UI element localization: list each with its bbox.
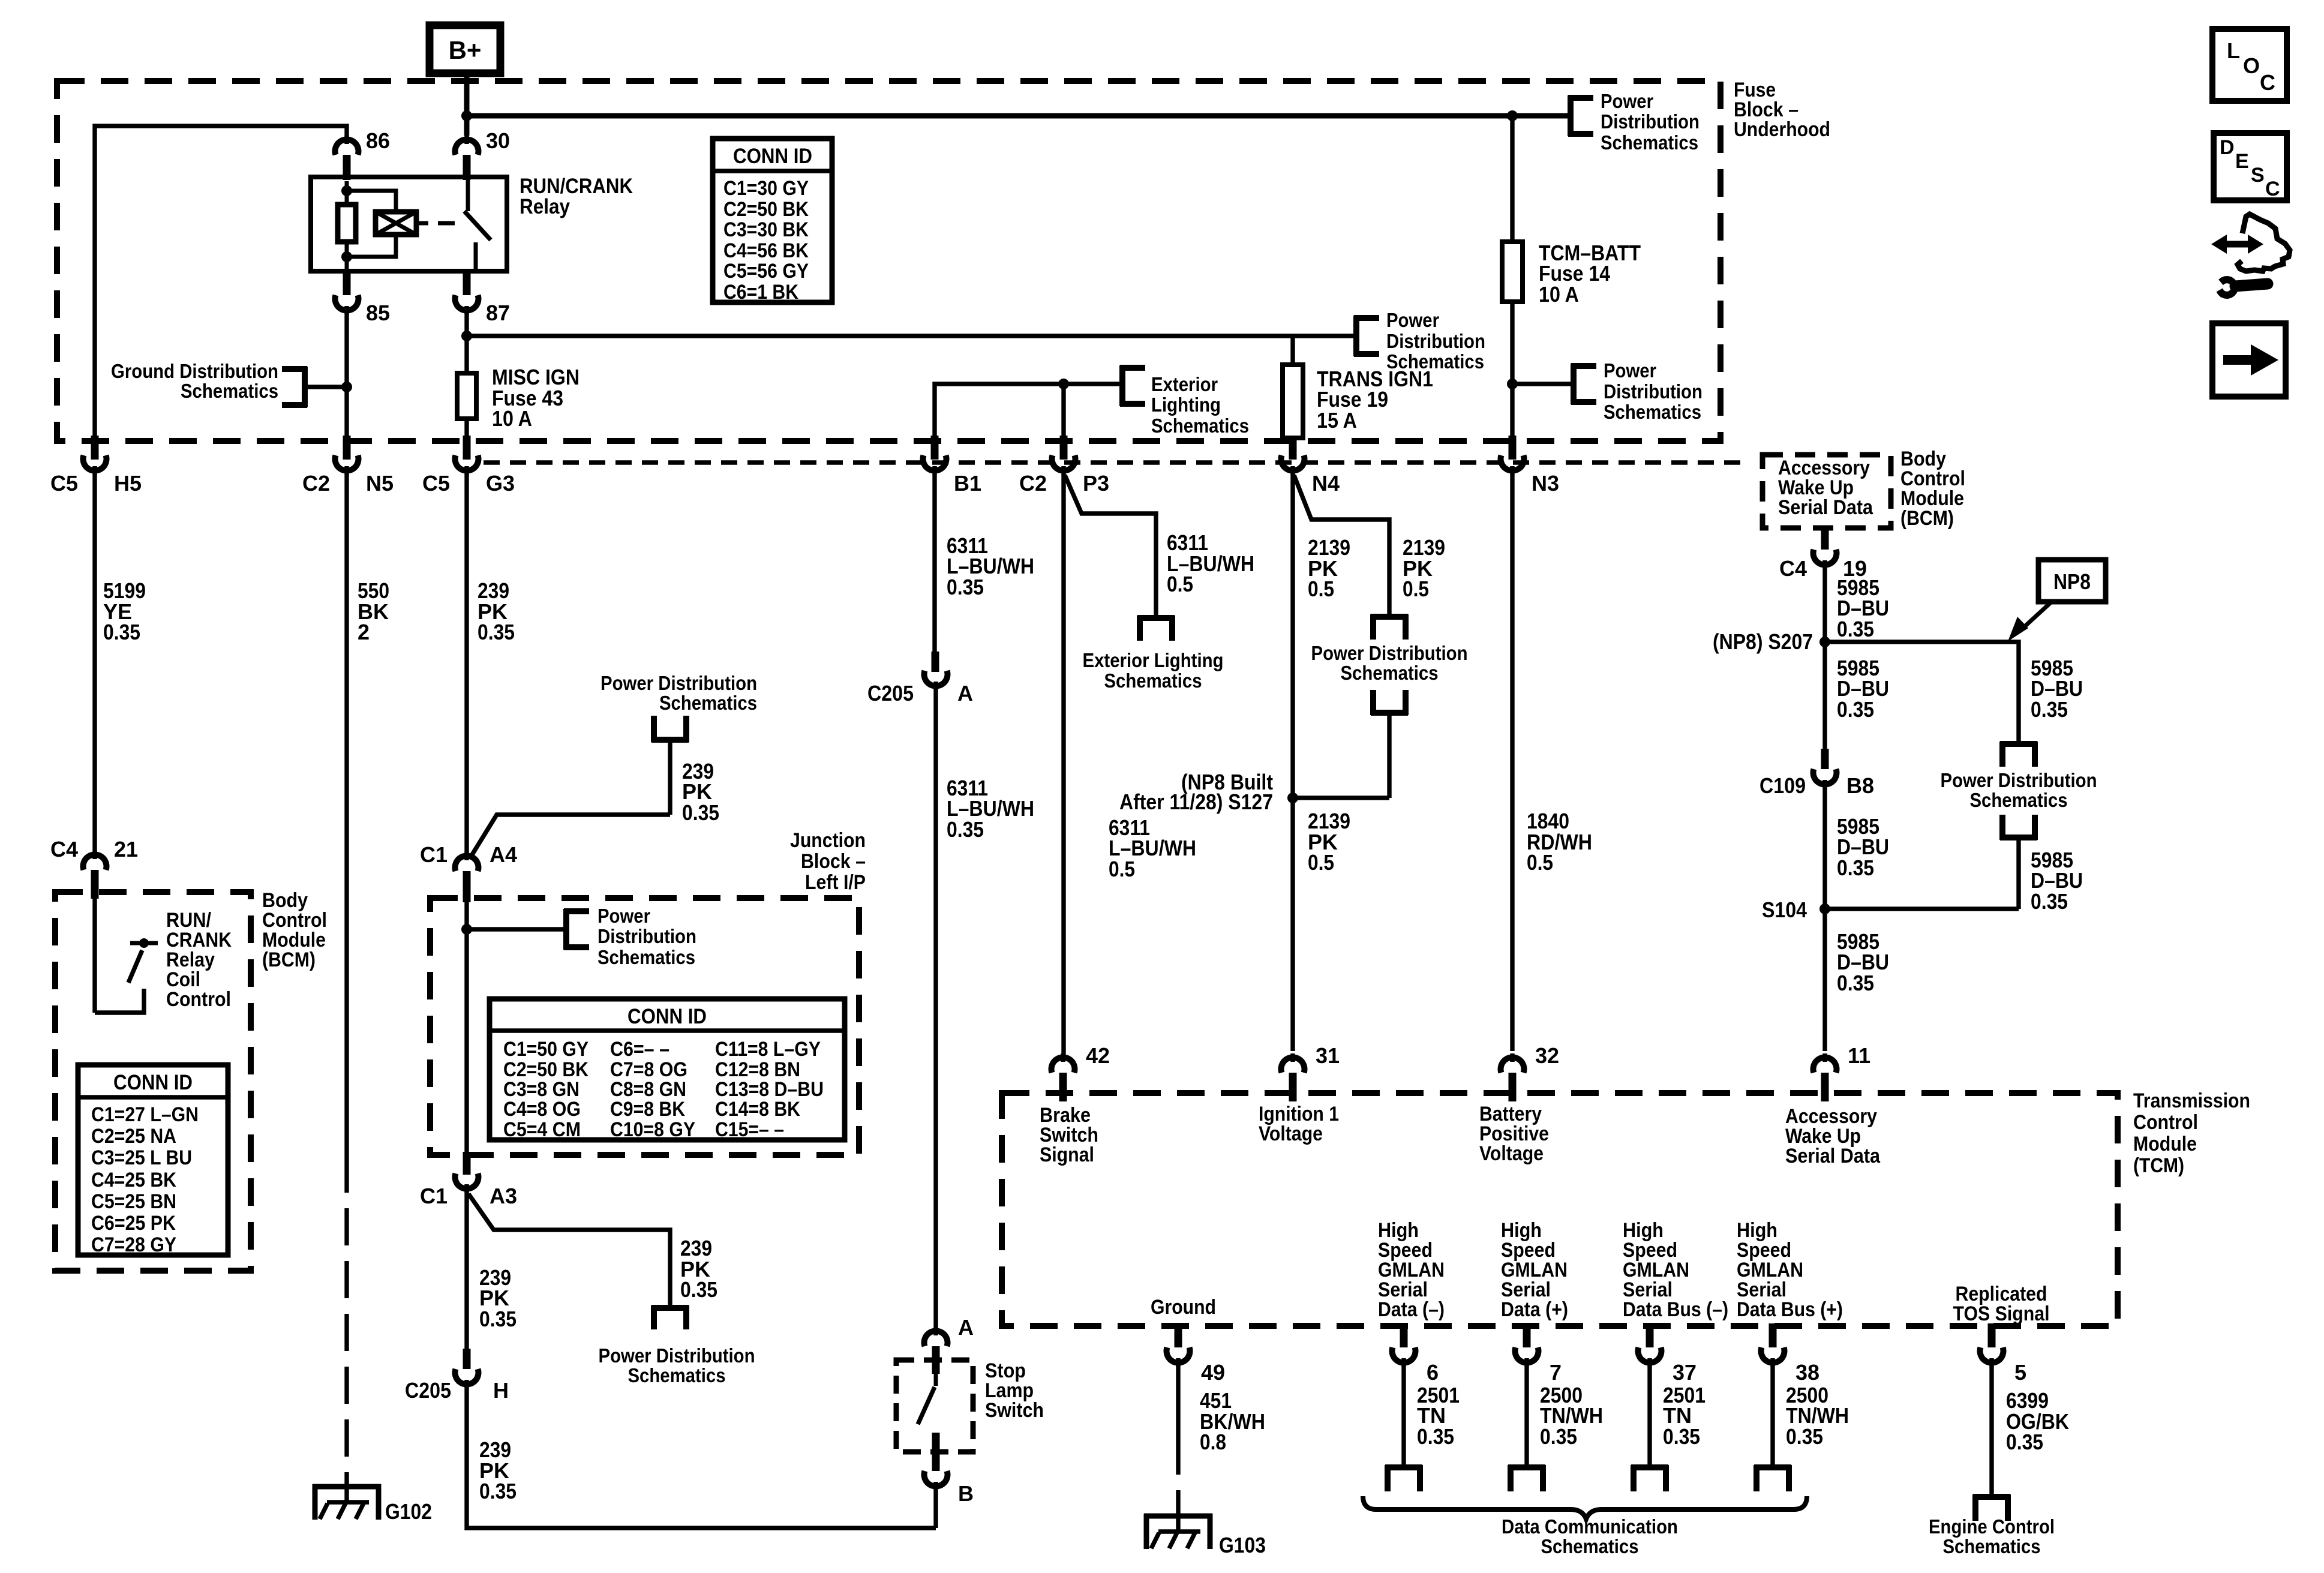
svg-text:C4=25 BK: C4=25 BK: [91, 1169, 176, 1191]
BCM internal run/crank relay coil control driver (switch symbol): [95, 897, 232, 1013]
label: Accessory Wake Up Serial Data (TCM pin 11): [1785, 1105, 1881, 1167]
svg-text:Power: Power: [1601, 90, 1653, 112]
connector pin 30 of RUN/CRANK relay: [455, 128, 511, 180]
svg-text:C2=50 BK: C2=50 BK: [723, 198, 809, 221]
svg-text:C10=8 GY: C10=8 GY: [610, 1118, 695, 1141]
svg-text:Power Distribution: Power Distribution: [1941, 769, 2097, 791]
connector B of stop lamp switch: [924, 1471, 974, 1528]
wire 5985 D-BU 0.35 (S207 to C109 B8): [1825, 642, 1889, 751]
connector TCM pin 6 (GMLAN serial data -): [1392, 1323, 1439, 1385]
svg-text:A4: A4: [490, 842, 517, 867]
svg-text:C1=50 GY: C1=50 GY: [503, 1038, 588, 1061]
svg-text:0.35: 0.35: [1837, 855, 1874, 880]
svg-text:C2: C2: [1019, 471, 1047, 496]
wire 451 BK/WH 0.8 (TCM pin 49 to G103), solid then dashed: [1178, 1365, 1265, 1516]
svg-text:Distribution: Distribution: [597, 925, 696, 947]
svg-text:Voltage: Voltage: [1259, 1122, 1323, 1145]
svg-text:CONN ID: CONN ID: [113, 1071, 193, 1094]
svg-text:O: O: [2243, 53, 2260, 78]
svg-text:21: 21: [114, 837, 138, 861]
label: Ground (TCM pin 49): [1151, 1296, 1216, 1319]
connector C205 pin H: [405, 1349, 509, 1403]
svg-text:Engine Control: Engine Control: [1929, 1515, 2055, 1538]
svg-text:0.35: 0.35: [479, 1307, 517, 1331]
wire 1840 RD/WH 0.5 (N3 to TCM pin 32): [1512, 474, 1592, 1051]
wire junction block tap to power distribution reference: [467, 927, 565, 931]
wire 5985 D-BU 0.35 branch from S207 to power distribution reference: [1825, 642, 2083, 744]
svg-text:A: A: [957, 681, 973, 706]
svg-text:0.35: 0.35: [103, 620, 140, 644]
svg-text:Serial Data: Serial Data: [1778, 496, 1873, 519]
svg-text:B: B: [958, 1481, 974, 1506]
svg-text:CONN ID: CONN ID: [627, 1005, 707, 1028]
svg-text:Signal: Signal: [1040, 1143, 1094, 1166]
svg-text:Schematics: Schematics: [1604, 401, 1701, 423]
svg-text:32: 32: [1535, 1043, 1559, 1068]
svg-text:Power Distribution: Power Distribution: [600, 672, 757, 694]
brace: data communication group: [1363, 1496, 1807, 1557]
svg-text:D: D: [2220, 136, 2235, 159]
svg-text:C4: C4: [50, 837, 78, 861]
svg-text:0.35: 0.35: [1786, 1424, 1823, 1449]
svg-text:0.5: 0.5: [1167, 572, 1193, 596]
label: High Speed GMLAN Serial Data Bus (+) (TCM pin 38): [1737, 1219, 1843, 1321]
svg-text:C5=56 GY: C5=56 GY: [723, 260, 809, 283]
svg-text:Left I/P: Left I/P: [805, 871, 866, 894]
label: High Speed GMLAN Serial Data (-) (TCM pin 6): [1378, 1219, 1445, 1321]
reference bracket: Power Distribution Schematics (inside junction block): [564, 905, 696, 968]
reference bracket: Power Distribution Schematics (middle, TRANS IGN1 bus): [1354, 309, 1485, 373]
wire relay coil feed (pin 86 to BCM H5 column): [95, 126, 347, 436]
wire 5985 D-BU 0.35 (C109 B8 to S104): [1825, 787, 1889, 909]
svg-text:C6=– –: C6=– –: [610, 1038, 669, 1061]
node S207 splice: [1713, 629, 1830, 654]
svg-text:0.35: 0.35: [2031, 697, 2068, 722]
svg-text:0.35: 0.35: [1540, 1424, 1577, 1449]
svg-text:L: L: [2227, 38, 2240, 63]
svg-text:C5=4 CM: C5=4 CM: [503, 1118, 581, 1141]
connector C5/G3 (fuse block, 239 PK circuit): [422, 436, 515, 496]
svg-text:86: 86: [366, 128, 390, 153]
svg-text:Data Communication: Data Communication: [1502, 1515, 1678, 1538]
connector B1 (fuse block, brake switch feed): [923, 436, 982, 496]
svg-text:Data (–): Data (–): [1378, 1298, 1445, 1321]
wire 550 BK 2 (N5 to ground G102), solid portion: [347, 474, 389, 1155]
svg-text:P3: P3: [1083, 471, 1109, 496]
connector TCM pin 31 (ignition 1 voltage): [1281, 1043, 1340, 1101]
svg-text:Lighting: Lighting: [1151, 394, 1221, 416]
svg-text:Schematics: Schematics: [1601, 131, 1698, 154]
svg-text:H: H: [493, 1378, 509, 1403]
svg-text:10 A: 10 A: [1539, 282, 1579, 307]
svg-text:Underhood: Underhood: [1734, 118, 1830, 141]
label: Battery Positive Voltage (TCM pin 32): [1479, 1103, 1549, 1165]
svg-text:C109: C109: [1759, 773, 1806, 798]
svg-text:0.35: 0.35: [1837, 617, 1874, 641]
svg-text:49: 49: [1201, 1360, 1225, 1385]
wire 5985 D-BU 0.35 (C4-19 to S207): [1825, 568, 1889, 642]
svg-text:C4=8 OG: C4=8 OG: [503, 1098, 581, 1121]
svg-text:Power: Power: [1604, 359, 1656, 382]
svg-text:0.5: 0.5: [1527, 850, 1553, 875]
power symbol B+ (battery positive) box: [430, 25, 500, 73]
svg-text:85: 85: [366, 301, 390, 325]
dashed box: Transmission Control Module (TCM): [1002, 1089, 2250, 1326]
svg-text:Data (+): Data (+): [1501, 1298, 1568, 1321]
wire P3 drop from exterior lighting feed: [1061, 384, 1065, 436]
relay coil resistor (internal): [338, 181, 356, 269]
svg-text:C2=25 NA: C2=25 NA: [91, 1125, 176, 1148]
connector TCM pin 11 (accessory wake up serial data): [1813, 1043, 1871, 1101]
dashed box: Accessory Wake Up Serial Data (BCM output): [1762, 455, 1891, 528]
svg-text:(BCM): (BCM): [1900, 507, 1954, 530]
wire B+ feed down to relay pin 30: [464, 73, 470, 136]
svg-text:G3: G3: [486, 471, 515, 496]
table CONN ID (junction block connector IDs): [490, 999, 845, 1141]
label: Ignition 1 Voltage (TCM pin 31): [1259, 1103, 1339, 1145]
svg-text:C1=27 L–GN: C1=27 L–GN: [91, 1103, 199, 1126]
node: junction A4 power distribution tap: [461, 924, 472, 935]
svg-text:87: 87: [486, 301, 510, 325]
connector pin 85 of RUN/CRANK relay: [335, 271, 391, 325]
stop lamp switch contacts and blade: [918, 1362, 940, 1471]
svg-text:C5: C5: [422, 471, 450, 496]
fuse F43 MISC IGN 10A: [457, 365, 580, 436]
label: High Speed GMLAN Serial Data Bus (-) (TCM pin 37): [1623, 1219, 1728, 1321]
svg-text:15 A: 15 A: [1317, 408, 1357, 433]
reference bracket: Power Distribution Schematics (below A3 branch): [599, 1305, 755, 1386]
connector N3 (fuse block, battery feed): [1501, 436, 1560, 496]
svg-text:0.35: 0.35: [2006, 1430, 2043, 1454]
wire 6311 L-BU/WH 0.35 (B1 to C205 A): [935, 474, 1034, 654]
svg-text:Distribution: Distribution: [1386, 330, 1485, 352]
svg-text:Schematics: Schematics: [181, 380, 278, 402]
wire 5985 D-BU 0.35 (S104 to TCM pin 11): [1825, 909, 1889, 1051]
svg-text:2: 2: [358, 620, 370, 644]
svg-text:After 11/28) S127: After 11/28) S127: [1119, 789, 1273, 814]
connector TCM pin 37 (GMLAN serial data bus -): [1638, 1323, 1697, 1385]
svg-text:Exterior Lighting: Exterior Lighting: [1083, 649, 1224, 671]
svg-text:0.5: 0.5: [1308, 577, 1334, 601]
wire 2501 TN 0.35 (TCM pin 37 to data communication): [1631, 1365, 1706, 1491]
svg-text:(NP8) S207: (NP8) S207: [1713, 629, 1813, 654]
svg-text:C14=8 BK: C14=8 BK: [715, 1098, 800, 1121]
wire junction block A4 bus: [464, 902, 469, 1158]
relay coil winding symbol (box with X): [347, 191, 416, 257]
wire 239 PK 0.35 (A3 to C205 H): [467, 1191, 517, 1349]
svg-text:Ground Distribution: Ground Distribution: [111, 360, 278, 382]
svg-text:0.35: 0.35: [1417, 1424, 1454, 1449]
icon: arrow box (next page): [2212, 323, 2286, 397]
svg-text:C205: C205: [867, 681, 914, 706]
node S127 splice: [1119, 770, 1298, 814]
fuse F19 TRANS IGN1 15A: [1283, 336, 1433, 442]
svg-text:(BCM): (BCM): [262, 948, 316, 971]
connector C4 pin 21 (BCM run/crank relay coil control): [50, 837, 138, 899]
svg-text:C9=8 BK: C9=8 BK: [610, 1098, 685, 1121]
svg-text:C6=25 PK: C6=25 PK: [91, 1212, 176, 1235]
reference pass-through: Power Distribution Schematics (N4 branch): [1293, 614, 1468, 798]
connector TCM pin 32 (battery positive voltage): [1501, 1043, 1560, 1101]
svg-text:Block –: Block –: [801, 850, 866, 873]
dashed box: Junction Block - Left I/P: [430, 829, 866, 1155]
connector TCM pin 42 (brake switch signal): [1052, 1043, 1110, 1101]
ground G102: [313, 1484, 432, 1524]
reference bracket: Exterior Lighting Schematics (top): [1120, 365, 1249, 437]
connector C109 pin B8: [1759, 749, 1874, 798]
connector C5/H5 (fuse block to BCM): [50, 436, 142, 496]
callout NP8 with arrow: [2008, 560, 2106, 641]
svg-text:(TCM): (TCM): [2133, 1154, 2184, 1177]
svg-text:30: 30: [486, 128, 510, 153]
node S104 splice: [1762, 897, 1830, 922]
svg-text:E: E: [2235, 150, 2249, 173]
svg-text:C2: C2: [302, 471, 330, 496]
wire 5199 YE 0.35 (H5 to BCM pin 21): [95, 474, 146, 852]
label: High Speed GMLAN Serial Data (+) (TCM pin 7): [1501, 1219, 1568, 1321]
connector C1 pin A4 (junction block): [420, 842, 517, 902]
svg-text:0.35: 0.35: [2031, 889, 2068, 914]
relay switch contact (pins 30-87): [464, 177, 491, 271]
svg-text:Control: Control: [166, 988, 231, 1011]
wire 2500 TN/WH 0.35 (TCM pin 7 to data communication): [1508, 1365, 1603, 1491]
wire exterior lighting feed (fuse 43 to B1/P3): [935, 384, 1121, 436]
svg-text:Relay: Relay: [520, 195, 570, 218]
svg-text:Voltage: Voltage: [1479, 1142, 1544, 1165]
reference bracket: Power Distribution Schematics (top right): [1568, 90, 1700, 154]
icon: DESC box: [2214, 133, 2287, 200]
ground G103: [1144, 1514, 1266, 1557]
svg-text:N5: N5: [366, 471, 394, 496]
wire 2500 TN/WH 0.35 (TCM pin 38 to data communication): [1754, 1365, 1849, 1491]
reference pass-through: Power Distribution Schematics (S207/S104 branch): [1825, 742, 2097, 914]
svg-text:A3: A3: [490, 1184, 517, 1208]
svg-text:Serial Data: Serial Data: [1785, 1145, 1881, 1167]
wire 550 BK 2 dashed portion to G102: [344, 1155, 349, 1487]
svg-text:0.5: 0.5: [1109, 857, 1135, 881]
connector C4 pin 19 (BCM accessory wake up): [1779, 527, 1867, 581]
connector A of stop lamp switch: [924, 1315, 974, 1374]
svg-text:B1: B1: [954, 471, 981, 496]
svg-text:Power Distribution: Power Distribution: [1311, 642, 1468, 664]
wire 6311 L-BU/WH 0.5 branch to exterior lighting reference: [1065, 475, 1254, 618]
svg-text:0.35: 0.35: [947, 817, 984, 842]
connector TCM pin 38 (GMLAN serial data bus +): [1761, 1323, 1820, 1385]
node: junction exterior lighting feed at P3: [1058, 379, 1069, 389]
svg-text:0.5: 0.5: [1308, 850, 1334, 875]
connector N4 (fuse block, ignition 1 feed): [1281, 436, 1340, 496]
table CONN ID (fuse block underhood connector IDs): [713, 139, 832, 304]
svg-text:Module: Module: [2133, 1133, 2197, 1155]
wire 239 PK 0.35 branch from A3 to power distribution reference: [469, 1194, 717, 1308]
svg-text:Distribution: Distribution: [1604, 380, 1703, 403]
svg-text:G103: G103: [1219, 1533, 1266, 1557]
svg-text:Schematics: Schematics: [1104, 670, 1202, 692]
svg-text:42: 42: [1086, 1043, 1110, 1068]
svg-text:B8: B8: [1846, 773, 1874, 798]
connector pin 87 of RUN/CRANK relay: [455, 271, 511, 325]
dashed box: Body Control Module (BCM): [55, 889, 327, 1271]
svg-text:C: C: [2260, 70, 2275, 95]
svg-text:N4: N4: [1312, 471, 1340, 496]
node: junction on B+ bus at TCM-BATT fuse: [1507, 110, 1518, 121]
svg-text:Schematics: Schematics: [659, 692, 757, 714]
wire 239 PK 0.35 (G3 down to junction block A4): [467, 474, 515, 853]
svg-text:C: C: [2265, 178, 2280, 200]
svg-text:C4: C4: [1779, 556, 1807, 581]
svg-text:Power: Power: [1386, 309, 1439, 331]
svg-text:C3=30 BK: C3=30 BK: [723, 218, 809, 241]
label: Brake Switch Signal (TCM pin 42): [1040, 1104, 1098, 1166]
svg-text:H5: H5: [114, 471, 142, 496]
node: junction ground-distribution tap on pin-85 wire: [341, 382, 352, 392]
svg-text:Schematics: Schematics: [1151, 415, 1249, 437]
svg-text:0.35: 0.35: [947, 575, 984, 599]
svg-text:C3=25 L BU: C3=25 L BU: [91, 1146, 192, 1169]
wire 6311 L-BU/WH 0.35 (C205 A to stop lamp switch A): [936, 689, 1034, 1328]
svg-text:Control: Control: [2133, 1111, 2198, 1134]
svg-text:C1: C1: [420, 842, 448, 867]
svg-text:Data Bus (–): Data Bus (–): [1623, 1298, 1728, 1321]
reference bracket: Ground Distribution Schematics: [111, 360, 347, 407]
dashed box: Stop Lamp Switch: [896, 1359, 1044, 1452]
svg-text:TOS Signal: TOS Signal: [1953, 1302, 2050, 1325]
svg-text:C15=– –: C15=– –: [715, 1118, 784, 1141]
svg-text:C7=28 GY: C7=28 GY: [91, 1233, 176, 1256]
svg-text:Transmission: Transmission: [2133, 1089, 2250, 1112]
svg-text:C1: C1: [420, 1184, 448, 1208]
inline connector face line (dashed) under fuse block: [484, 460, 1743, 464]
svg-text:C11=8 L–GY: C11=8 L–GY: [715, 1038, 821, 1061]
svg-text:CONN ID: CONN ID: [733, 145, 812, 168]
wire relay pin 87 to MISC IGN fuse and TRANS IGN1 feed: [467, 313, 1355, 376]
relay RUN/CRANK Relay box: [311, 175, 633, 271]
table CONN ID (BCM connector IDs): [78, 1065, 228, 1256]
svg-text:Power: Power: [597, 905, 650, 927]
svg-text:C5=25 BN: C5=25 BN: [91, 1190, 176, 1213]
node: junction TCM-BATT branch to power distribution: [1507, 379, 1518, 389]
wire 239 PK 0.35 (C205 H to stop lamp switch B): [467, 1387, 936, 1528]
label: Replicated TOS Signal (TCM pin 5): [1953, 1283, 2050, 1325]
svg-text:0.35: 0.35: [1837, 971, 1874, 995]
wire B+ bus to TCM-BATT fuse and power distribution reference: [467, 113, 1569, 119]
svg-text:Power Distribution: Power Distribution: [599, 1344, 755, 1367]
wire 2139 PK 0.5 (S127 to TCM pin 31): [1308, 809, 1350, 875]
svg-text:Schematics: Schematics: [1970, 789, 2068, 811]
svg-text:G102: G102: [385, 1499, 432, 1524]
svg-text:31: 31: [1316, 1043, 1340, 1068]
svg-text:10 A: 10 A: [492, 406, 532, 431]
svg-text:5: 5: [2014, 1360, 2026, 1385]
svg-text:0.35: 0.35: [1663, 1424, 1700, 1449]
wire TCM-BATT branch to power distribution reference: [1512, 382, 1572, 386]
svg-text:0.8: 0.8: [1200, 1430, 1226, 1454]
svg-text:B+: B+: [449, 36, 482, 64]
svg-text:N3: N3: [1532, 471, 1559, 496]
svg-text:S104: S104: [1762, 897, 1807, 922]
dashed box: Fuse Block - Underhood: [57, 79, 1830, 441]
svg-text:Data Bus (+): Data Bus (+): [1737, 1298, 1843, 1321]
node: junction pin-87 bus: [461, 331, 472, 341]
node: junction on B+ bus at relay feed: [461, 110, 472, 121]
reference bracket: Power Distribution Schematics (239 PK feed above junction block): [600, 672, 757, 815]
svg-text:7: 7: [1550, 1360, 1562, 1385]
svg-text:0.5: 0.5: [1403, 577, 1429, 601]
connector C2/N5 (fuse block to G102): [302, 436, 394, 496]
svg-text:0.35: 0.35: [479, 1479, 517, 1503]
svg-text:37: 37: [1673, 1360, 1697, 1385]
svg-text:0.35: 0.35: [1837, 697, 1874, 722]
svg-text:A: A: [958, 1315, 974, 1340]
svg-text:Junction: Junction: [790, 829, 866, 852]
svg-text:Schematics: Schematics: [597, 946, 695, 968]
svg-text:NP8: NP8: [2053, 569, 2091, 594]
relay actuation dashed link: [416, 221, 455, 226]
wire 2139 PK 0.5 (N4 down to S127): [1293, 474, 1350, 1051]
svg-text:C5: C5: [50, 471, 78, 496]
icon: diagnostic car with wrench: [2211, 214, 2290, 295]
svg-text:C6=1 BK: C6=1 BK: [723, 281, 798, 304]
connector C1 pin A3 (junction block): [420, 1152, 517, 1208]
svg-text:0.35: 0.35: [682, 800, 719, 825]
svg-text:C4=56 BK: C4=56 BK: [723, 239, 809, 262]
label: Body Control Module (BCM) next to accessory box: [1900, 448, 1965, 530]
icon: LOC box: [2212, 29, 2287, 101]
wire relay pin 85 down to fuse block bottom (N5): [344, 313, 349, 436]
wire 2501 TN 0.35 (TCM pin 6 to data communication): [1385, 1365, 1460, 1491]
reference bracket: Power Distribution Schematics (right of TCM-BATT): [1571, 359, 1703, 423]
svg-text:S: S: [2251, 164, 2265, 187]
svg-text:0.35: 0.35: [680, 1277, 717, 1302]
svg-text:6: 6: [1427, 1360, 1439, 1385]
wire 6311 L-BU/WH 0.5 (P3 to TCM pin 42): [1064, 474, 1196, 1055]
svg-text:Schematics: Schematics: [628, 1364, 726, 1386]
connector C205 pin A: [867, 652, 973, 706]
svg-text:C1=30 GY: C1=30 GY: [723, 177, 809, 200]
connector TCM pin 7 (GMLAN serial data +): [1515, 1323, 1562, 1385]
wire 6399 OG/BK 0.35 (TCM pin 5 to engine control): [1973, 1365, 2069, 1521]
fuse F14 TCM-BATT 10A: [1502, 116, 1641, 442]
svg-text:38: 38: [1795, 1360, 1819, 1385]
svg-text:11: 11: [1848, 1043, 1870, 1068]
svg-text:Schematics: Schematics: [1541, 1535, 1639, 1557]
svg-text:Schematics: Schematics: [1943, 1535, 2041, 1557]
connector C2/P3 (fuse block, brake switch feed): [1019, 436, 1109, 496]
connector TCM pin 5 (replicated TOS signal): [1980, 1323, 2027, 1385]
wire 239 PK 0.35 branch into connector A4: [470, 759, 719, 858]
svg-text:Exterior: Exterior: [1151, 373, 1218, 395]
svg-text:Ground: Ground: [1151, 1296, 1216, 1319]
svg-text:C205: C205: [405, 1378, 451, 1403]
connector pin 86 of RUN/CRANK relay: [335, 128, 391, 180]
reference bracket: Exterior Lighting Schematics (below P3): [1083, 616, 1224, 692]
svg-text:Distribution: Distribution: [1601, 110, 1700, 133]
label: Engine Control Schematics (pin 5 destination): [1929, 1515, 2055, 1557]
svg-text:Switch: Switch: [985, 1399, 1044, 1422]
svg-text:Schematics: Schematics: [1341, 662, 1439, 684]
wire 2139 PK 0.5 branch to power distribution reference: [1294, 475, 1445, 617]
svg-text:0.35: 0.35: [478, 620, 515, 644]
connector TCM pin 49 (ground): [1167, 1323, 1226, 1385]
